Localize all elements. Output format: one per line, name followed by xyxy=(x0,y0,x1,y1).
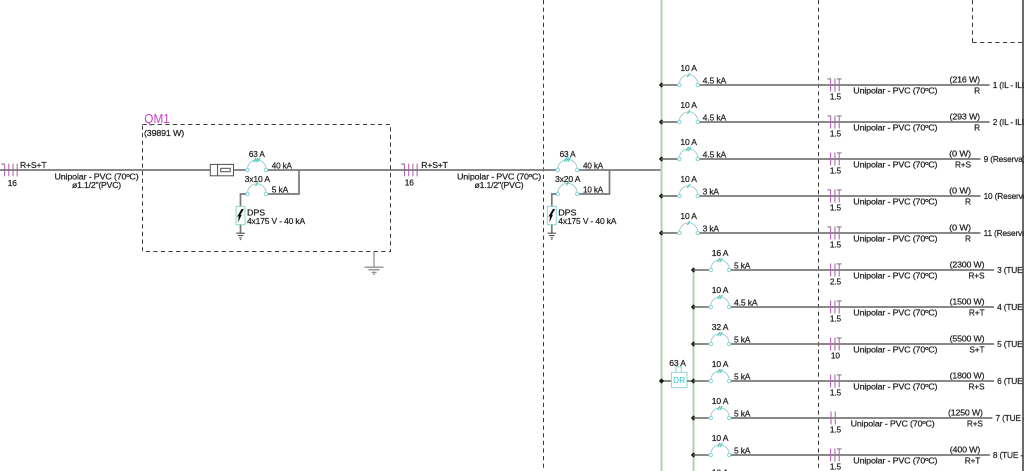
label cable spec section 2 xyxy=(457,171,541,190)
node circuit 8 tap xyxy=(691,452,696,457)
svg-text:2.5: 2.5 xyxy=(830,276,842,286)
wire DR to bus2 xyxy=(687,380,694,382)
svg-text:5 kA: 5 kA xyxy=(734,260,751,270)
svg-text:5 kA: 5 kA xyxy=(734,445,751,455)
wire circuit 8 run xyxy=(731,454,990,456)
wire breaker to box edge xyxy=(268,169,401,171)
svg-text:(293 W): (293 W) xyxy=(950,111,981,121)
svg-text:Unipolar - PVC (70ºC): Unipolar - PVC (70ºC) xyxy=(853,197,937,207)
wire circuit 6 run xyxy=(731,380,994,382)
svg-text:Unipolar - PVC (70ºC): Unipolar - PVC (70ºC) xyxy=(853,86,937,96)
svg-text:5 kA: 5 kA xyxy=(734,371,751,381)
svg-text:QM1: QM1 xyxy=(144,112,170,126)
circuit breaker 10 A 5 kA c6 xyxy=(709,369,731,383)
svg-text:(39891 W): (39891 W) xyxy=(144,128,184,138)
dashed boundary line of distribution panel xyxy=(818,0,820,471)
conductor marks c9 xyxy=(831,153,842,166)
svg-text:R+S+T: R+S+T xyxy=(421,160,448,170)
svg-text:R: R xyxy=(965,234,971,244)
svg-text:(0 W): (0 W) xyxy=(949,185,971,195)
circuit breaker 16 A 5 kA c3 xyxy=(709,258,731,272)
svg-text:10 A: 10 A xyxy=(712,468,729,471)
wire bus1 to DR xyxy=(662,380,672,382)
circuit breaker 10 A 4.5 kA c4 xyxy=(709,295,731,309)
svg-text:1.5: 1.5 xyxy=(830,239,842,249)
conductor marks c5 xyxy=(831,338,842,351)
wire circuit 1 run xyxy=(700,84,990,86)
svg-text:1.5: 1.5 xyxy=(830,387,842,397)
svg-text:1.5: 1.5 xyxy=(830,313,842,323)
svg-text:(2300 W): (2300 W) xyxy=(950,259,985,269)
svg-text:63 A: 63 A xyxy=(669,358,686,368)
svg-text:10 A: 10 A xyxy=(680,174,697,184)
circuit breaker QM1 63A 3x10A xyxy=(246,158,268,172)
circuit breaker general 63A 3x20A xyxy=(556,157,579,171)
svg-text:5 kA: 5 kA xyxy=(734,408,751,418)
wire main feed left xyxy=(0,169,210,171)
circuit breaker DPS branch 10kA xyxy=(556,181,579,195)
wire breaker to DPS xyxy=(241,194,246,206)
svg-text:(216 W): (216 W) xyxy=(950,74,981,84)
conductor marks c11 xyxy=(827,227,841,240)
wire bus to breaker c1 xyxy=(662,84,678,86)
svg-text:6 (TUE - Toma: 6 (TUE - Toma xyxy=(997,376,1024,386)
wire bus to breaker c3 xyxy=(694,269,710,271)
label cable spec xyxy=(55,171,139,190)
node circuit 7 tap xyxy=(691,415,696,420)
svg-text:10 A: 10 A xyxy=(680,211,697,221)
wire circuit 10 run xyxy=(700,195,981,197)
wire to general breaker xyxy=(401,169,556,171)
wire circuit 11 run xyxy=(700,232,981,234)
circuit breaker 10 A 4.5 kA c1 xyxy=(678,73,700,87)
ground (DPS QM1) xyxy=(236,233,245,239)
circuit breaker 10 A 5 kA c7 xyxy=(709,406,731,420)
node circuit 4 tap xyxy=(691,304,696,309)
svg-text:63 A: 63 A xyxy=(560,149,576,159)
svg-text:Unipolar - PVC (70ºC): Unipolar - PVC (70ºC) xyxy=(853,308,937,318)
ground (DPS 2) xyxy=(548,233,557,239)
svg-text:5 kA: 5 kA xyxy=(272,184,289,194)
circuit breaker 10 A 3 kA c11 xyxy=(678,221,700,235)
svg-text:R+S: R+S xyxy=(955,160,972,170)
conductor marks c1 xyxy=(827,79,841,92)
svg-text:10 A: 10 A xyxy=(680,100,697,110)
svg-text:1.5: 1.5 xyxy=(830,461,842,471)
node circuit 1 tap xyxy=(659,82,664,87)
svg-text:Unipolar - PVC (70ºC): Unipolar - PVC (70ºC) xyxy=(853,345,937,355)
sheet border xyxy=(1022,0,1024,471)
node circuit 5 tap xyxy=(691,341,696,346)
svg-text:16 A: 16 A xyxy=(712,248,729,258)
svg-text:DR: DR xyxy=(673,375,685,385)
svg-text:1.5: 1.5 xyxy=(830,91,842,101)
DPS surge arrester 2 xyxy=(547,206,556,224)
svg-text:40 kA: 40 kA xyxy=(272,160,293,170)
svg-text:1 (IL - ILUMIN: 1 (IL - ILUMIN xyxy=(993,80,1024,90)
wire circuit 9 run xyxy=(700,158,981,160)
wire circuit 3 run xyxy=(731,269,994,271)
svg-text:5 (TUE - Toma: 5 (TUE - Toma xyxy=(997,339,1024,349)
conductor marks c7 xyxy=(831,412,835,425)
wire bus to breaker c9 xyxy=(662,158,678,160)
svg-text:(400 W): (400 W) xyxy=(950,444,981,454)
svg-text:1.5: 1.5 xyxy=(830,202,842,212)
circuit breaker 10 A 4.5 kA c9 xyxy=(678,147,700,161)
node circuit 2 tap xyxy=(659,119,664,124)
svg-text:40 kA: 40 kA xyxy=(583,160,604,170)
wire DPS 2 to ground xyxy=(551,225,553,233)
svg-text:10 kA: 10 kA xyxy=(583,184,604,194)
svg-text:32 A: 32 A xyxy=(712,322,729,332)
DPS surge arrester QM1 xyxy=(236,206,245,224)
conductor marks c4 xyxy=(831,301,842,314)
circuit breaker DPS branch 5kA xyxy=(246,182,268,196)
wire drop to DPS breaker xyxy=(268,170,299,194)
svg-text:R+T: R+T xyxy=(965,456,981,466)
svg-text:4.5 kA: 4.5 kA xyxy=(734,297,758,307)
svg-text:16: 16 xyxy=(8,178,17,188)
wire breaker to DPS 2 xyxy=(552,194,556,206)
svg-text:2 (IL - ILUMIN: 2 (IL - ILUMIN xyxy=(993,117,1024,127)
svg-text:R+S: R+S xyxy=(967,419,984,429)
svg-text:Unipolar - PVC (70ºC): Unipolar - PVC (70ºC) xyxy=(853,382,937,392)
svg-text:10 (Reserva): 10 (Reserva) xyxy=(984,191,1024,201)
svg-text:3 (TUE - Toma: 3 (TUE - Toma xyxy=(997,265,1024,275)
svg-text:R+S: R+S xyxy=(968,271,985,281)
svg-text:11 (Reserva): 11 (Reserva) xyxy=(984,228,1024,238)
svg-text:R: R xyxy=(974,123,980,133)
svg-text:10 A: 10 A xyxy=(680,63,697,73)
svg-text:10 A: 10 A xyxy=(712,359,729,369)
svg-text:R+T: R+T xyxy=(969,308,985,318)
svg-text:1.5: 1.5 xyxy=(830,128,842,138)
svg-text:(1250 W): (1250 W) xyxy=(948,407,983,417)
svg-text:3 kA: 3 kA xyxy=(703,223,720,233)
svg-text:R+S: R+S xyxy=(968,382,985,392)
svg-text:5 kA: 5 kA xyxy=(734,334,751,344)
svg-text:ø1.1/2"(PVC): ø1.1/2"(PVC) xyxy=(475,180,524,190)
wire circuit 5 run xyxy=(731,343,994,345)
wire drop to DPS breaker 2 xyxy=(579,170,610,194)
svg-text:(5500 W): (5500 W) xyxy=(950,333,985,343)
svg-text:4x175 V - 40 kA: 4x175 V - 40 kA xyxy=(247,216,306,226)
svg-text:10 A: 10 A xyxy=(680,137,697,147)
enclosure QM1 dashed box xyxy=(143,125,391,252)
wire bus to breaker c11 xyxy=(662,232,678,234)
wire circuit 2 run xyxy=(700,121,990,123)
circuit breaker 32 A 5 kA c5 xyxy=(709,332,731,346)
svg-text:10 A: 10 A xyxy=(712,396,729,406)
wire bus to breaker c6 xyxy=(694,380,710,382)
svg-text:Unipolar - PVC (70ºC): Unipolar - PVC (70ºC) xyxy=(853,160,937,170)
svg-text:4x175 V - 40 kA: 4x175 V - 40 kA xyxy=(558,216,617,226)
energy meter xyxy=(210,164,233,175)
svg-text:8 (TUE - Toma: 8 (TUE - Toma xyxy=(993,450,1024,460)
wire bus to breaker c2 xyxy=(662,121,678,123)
svg-text:7 (TUE - Toma: 7 (TUE - Toma xyxy=(996,413,1024,423)
svg-text:R: R xyxy=(974,86,980,96)
circuit breaker 10 A 4.5 kA c2 xyxy=(678,110,700,124)
svg-text:Unipolar - PVC (70ºC): Unipolar - PVC (70ºC) xyxy=(853,234,937,244)
svg-text:63 A: 63 A xyxy=(249,149,265,159)
svg-text:Unipolar - PVC (70ºC): Unipolar - PVC (70ºC) xyxy=(853,456,937,466)
wire DPS to ground xyxy=(240,225,242,233)
conductor marks c2 xyxy=(827,116,841,129)
conductor marks c8 xyxy=(831,449,842,462)
wire enclosure ground stem xyxy=(373,252,375,267)
wire circuit 4 run xyxy=(731,306,994,308)
junction bus1/DR xyxy=(659,378,664,383)
svg-text:3 kA: 3 kA xyxy=(703,186,720,196)
svg-text:S+T: S+T xyxy=(969,345,984,355)
svg-text:16: 16 xyxy=(405,178,414,188)
svg-text:(0 W): (0 W) xyxy=(949,148,971,158)
svg-text:R+S+T: R+S+T xyxy=(20,160,47,170)
node circuit 6 tap xyxy=(691,378,696,383)
wire circuit 7 run xyxy=(731,417,993,419)
dashed panel box corner (top right) xyxy=(973,0,1024,43)
wire bus to breaker c4 xyxy=(694,306,710,308)
node circuit 3 tap xyxy=(691,267,696,272)
svg-text:(1800 W): (1800 W) xyxy=(950,370,985,380)
svg-text:9 (Reserva): 9 (Reserva) xyxy=(984,154,1024,164)
wire breaker to bus xyxy=(579,169,662,171)
svg-text:ø1.1/2"(PVC): ø1.1/2"(PVC) xyxy=(72,180,121,190)
svg-text:Unipolar - PVC (70ºC): Unipolar - PVC (70ºC) xyxy=(853,123,937,133)
svg-text:4.5 kA: 4.5 kA xyxy=(703,112,727,122)
svg-text:4.5 kA: 4.5 kA xyxy=(703,75,727,85)
conductor marks c6 xyxy=(831,375,842,388)
svg-text:4 (TUE - Toma: 4 (TUE - Toma xyxy=(997,302,1024,312)
node circuit 9 tap xyxy=(659,156,664,161)
residual device DR 63A xyxy=(672,367,688,388)
svg-text:Unipolar - PVC (70ºC): Unipolar - PVC (70ºC) xyxy=(851,419,935,429)
wire bus to breaker c7 xyxy=(694,417,710,419)
wire bus to breaker c10 xyxy=(662,195,678,197)
svg-text:R: R xyxy=(965,197,971,207)
node circuit 11 tap xyxy=(659,230,664,235)
svg-text:(1500 W): (1500 W) xyxy=(950,296,985,306)
svg-text:10 A: 10 A xyxy=(712,433,729,443)
node circuit 10 tap xyxy=(659,193,664,198)
dashed boundary line between entrance and QM section xyxy=(543,0,545,471)
svg-text:10: 10 xyxy=(831,350,840,360)
conductor marks c3 xyxy=(831,264,842,277)
feeder entry conductor marks R+S+T xyxy=(1,164,17,177)
svg-text:1.5: 1.5 xyxy=(830,165,842,175)
svg-text:(0 W): (0 W) xyxy=(949,222,971,232)
feeder conductor marks R+S+T (section 2) xyxy=(401,164,417,177)
svg-text:10 A: 10 A xyxy=(712,285,729,295)
circuit breaker 10 A 3 kA c10 xyxy=(678,184,700,198)
ground (QM1 enclosure) xyxy=(365,267,384,274)
bus bar 1 (green) xyxy=(661,0,663,471)
wire bus to breaker c8 xyxy=(694,454,710,456)
conductor marks c10 xyxy=(827,190,841,203)
svg-text:Unipolar - PVC (70ºC): Unipolar - PVC (70ºC) xyxy=(853,271,937,281)
svg-text:1.5: 1.5 xyxy=(830,424,842,434)
wire bus to breaker c5 xyxy=(694,343,710,345)
wire meter to breaker xyxy=(234,169,246,171)
svg-text:4.5 kA: 4.5 kA xyxy=(703,149,727,159)
circuit breaker 10 A 5 kA c8 xyxy=(709,443,731,457)
bus bar 2 (green) xyxy=(693,270,695,471)
